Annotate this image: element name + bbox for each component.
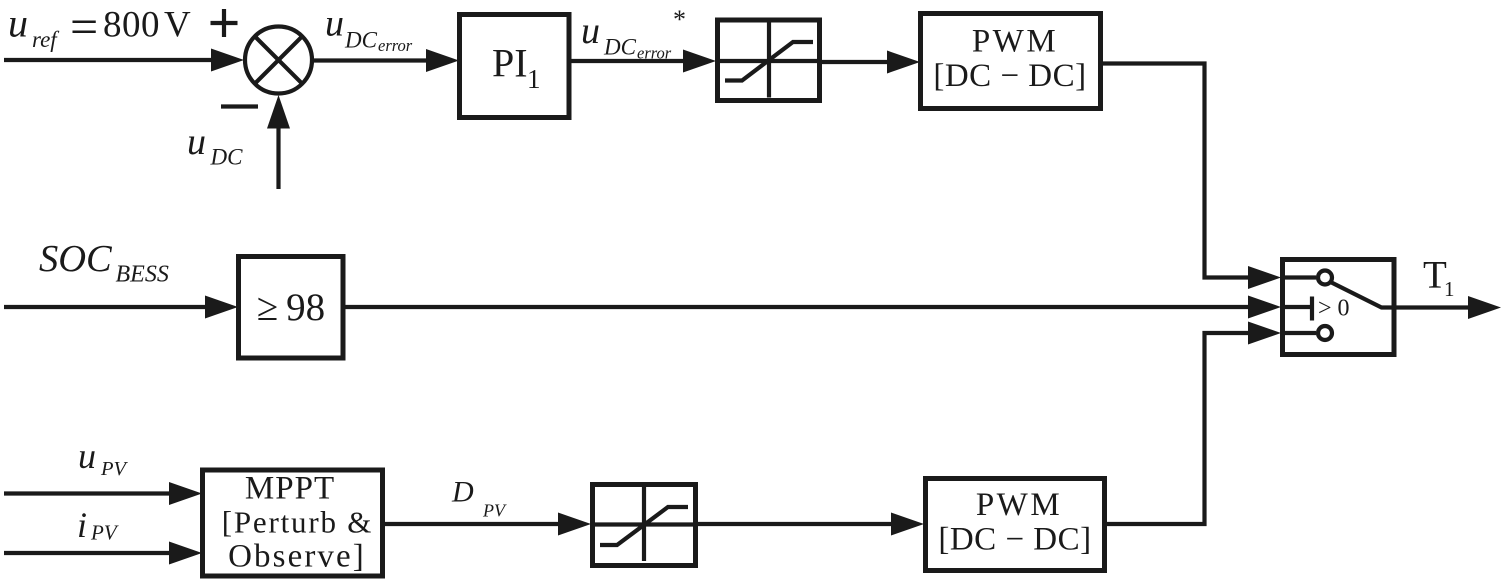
svg-text:u: u (78, 436, 96, 476)
svg-text:1: 1 (1444, 277, 1455, 301)
svg-text:i: i (77, 505, 87, 545)
svg-text:[DC − DC]: [DC − DC] (933, 58, 1086, 94)
svg-text:DC: DC (210, 145, 244, 170)
svg-text:Observe]: Observe] (228, 539, 366, 575)
svg-text:error: error (637, 44, 672, 63)
svg-text:BESS: BESS (116, 262, 169, 288)
svg-text:V: V (164, 5, 191, 46)
svg-text:DC: DC (344, 28, 378, 53)
svg-text:u: u (325, 3, 344, 45)
svg-text:ref: ref (32, 27, 60, 52)
svg-text:≥ 98: ≥ 98 (257, 286, 325, 329)
svg-text:1: 1 (527, 64, 541, 94)
svg-text:u: u (581, 10, 600, 52)
svg-text:error: error (378, 36, 413, 55)
svg-text:PV: PV (90, 521, 119, 545)
svg-text:> 0: > 0 (1318, 296, 1350, 322)
svg-text:800: 800 (103, 5, 160, 46)
svg-text:PV: PV (482, 501, 507, 521)
svg-text:MPPT: MPPT (245, 471, 335, 507)
svg-text:u: u (8, 1, 28, 46)
svg-text:D: D (451, 476, 474, 509)
svg-text:[Perturb &: [Perturb & (222, 505, 373, 540)
svg-text:PI: PI (492, 41, 528, 86)
svg-text:DC: DC (603, 35, 637, 60)
svg-text:PWM: PWM (972, 24, 1058, 60)
svg-text:SOC: SOC (39, 238, 113, 280)
svg-text:=: = (70, 0, 98, 55)
svg-text:[DC − DC]: [DC − DC] (938, 521, 1091, 557)
svg-text:*: * (673, 5, 686, 34)
svg-text:PWM: PWM (976, 487, 1062, 523)
svg-text:u: u (187, 121, 206, 163)
svg-text:PV: PV (100, 458, 129, 480)
